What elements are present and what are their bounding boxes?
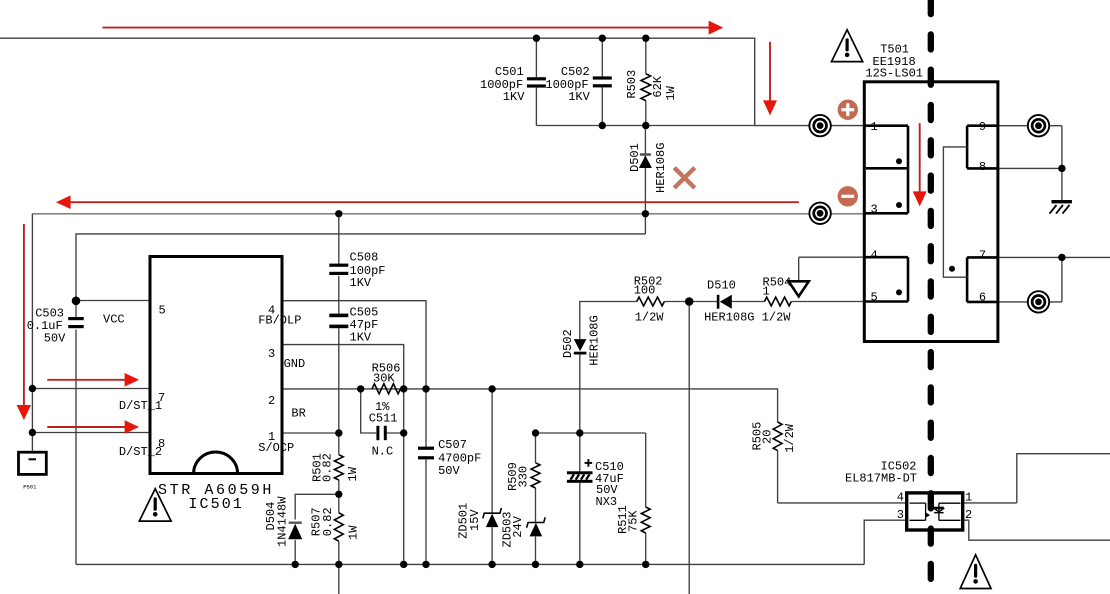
- svg-text:HER108G 1/2W: HER108G 1/2W: [704, 310, 791, 324]
- svg-text:D/ST_2: D/ST_2: [119, 445, 162, 459]
- svg-text:4: 4: [871, 249, 878, 263]
- svg-text:12S-LS01: 12S-LS01: [865, 67, 923, 81]
- svg-text:1W: 1W: [664, 85, 678, 100]
- svg-text:2: 2: [268, 394, 275, 408]
- svg-text:1W: 1W: [347, 525, 361, 540]
- svg-text:D510: D510: [707, 279, 736, 293]
- svg-text:7: 7: [979, 249, 986, 263]
- svg-text:1KV: 1KV: [568, 90, 590, 104]
- svg-text:FB/OLP: FB/OLP: [258, 313, 301, 327]
- svg-text:C507: C507: [438, 438, 467, 452]
- svg-text:P501: P501: [23, 484, 37, 491]
- svg-text:C511: C511: [369, 412, 398, 426]
- svg-text:0.82: 0.82: [321, 453, 335, 482]
- svg-text:0.82: 0.82: [321, 507, 335, 536]
- svg-text:GND: GND: [284, 357, 306, 371]
- svg-text:D/ST_1: D/ST_1: [119, 399, 162, 413]
- svg-text:6: 6: [979, 291, 986, 305]
- svg-text:R503: R503: [625, 70, 639, 99]
- svg-text:1/2W: 1/2W: [783, 423, 797, 453]
- svg-text:IC501: IC501: [188, 496, 244, 513]
- svg-text:20: 20: [761, 430, 775, 444]
- svg-text:1W: 1W: [346, 466, 360, 481]
- svg-text:50V: 50V: [438, 464, 460, 478]
- svg-text:1KV: 1KV: [350, 331, 372, 345]
- svg-text:1/2W: 1/2W: [635, 310, 665, 324]
- svg-text:62K: 62K: [651, 75, 665, 97]
- svg-text:24V: 24V: [511, 515, 525, 537]
- svg-text:C501: C501: [495, 65, 524, 79]
- svg-text:1KV: 1KV: [350, 276, 372, 290]
- svg-text:HER108G: HER108G: [654, 143, 668, 193]
- svg-text:1KV: 1KV: [503, 90, 525, 104]
- svg-text:C508: C508: [350, 251, 379, 265]
- svg-text:1: 1: [763, 285, 770, 299]
- svg-text:100: 100: [634, 284, 656, 298]
- svg-text:S/OCP: S/OCP: [258, 441, 294, 455]
- svg-text:5: 5: [159, 303, 166, 317]
- svg-text:50V: 50V: [44, 331, 66, 345]
- svg-text:1: 1: [965, 490, 972, 504]
- svg-text:C502: C502: [561, 65, 590, 79]
- svg-text:1N4148W: 1N4148W: [275, 496, 289, 547]
- svg-text:NX3: NX3: [596, 495, 618, 509]
- svg-text:D502: D502: [561, 329, 575, 358]
- svg-text:8: 8: [979, 160, 986, 174]
- svg-text:D501: D501: [628, 143, 642, 172]
- svg-text:9: 9: [979, 120, 986, 134]
- svg-text:VCC: VCC: [103, 313, 125, 327]
- svg-text:30K: 30K: [373, 371, 395, 385]
- svg-text:75K: 75K: [626, 510, 640, 532]
- svg-text:BR: BR: [291, 407, 305, 421]
- svg-text:3: 3: [268, 347, 275, 361]
- svg-text:5: 5: [871, 291, 878, 305]
- svg-text:15V: 15V: [468, 509, 482, 531]
- svg-text:EL817MB-DT: EL817MB-DT: [845, 472, 917, 486]
- svg-text:HER108G: HER108G: [588, 315, 602, 365]
- svg-text:3: 3: [897, 508, 904, 522]
- svg-text:2: 2: [965, 508, 972, 522]
- svg-text:3: 3: [871, 203, 878, 217]
- svg-text:N.C: N.C: [372, 444, 394, 458]
- svg-text:1: 1: [871, 120, 878, 134]
- svg-text:4: 4: [897, 490, 904, 504]
- svg-text:330: 330: [516, 466, 530, 488]
